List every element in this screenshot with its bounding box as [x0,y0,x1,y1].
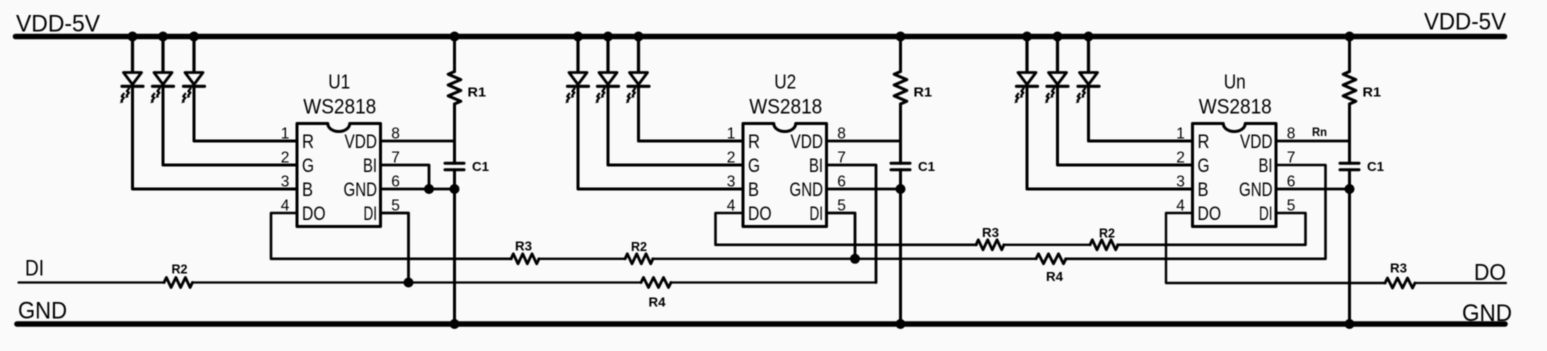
VDD power rail (+5V) [16,34,1505,40]
svg-text:DO: DO [1198,204,1222,225]
junction on GND rail at x=1349.5 [1345,319,1355,329]
capacitor C1 (stage 2) [891,162,910,165]
svg-text:B: B [748,180,759,201]
svg-text:DO: DO [302,204,326,225]
resistor R1 (stage 2) [894,72,907,105]
resistor R2 (DI series) [164,278,193,288]
junction on VDD rail at x=638.5 [634,32,644,42]
IC U1 body (WS2818) [297,124,381,227]
wire R3 to R2 (stage 1-2) [539,258,626,260]
junction BI/GND node U1 [424,184,434,194]
LED D6 (stage 2, to pin 1 R) [637,37,640,75]
svg-text:R3: R3 [515,239,532,254]
wire DI net to U2 BI pin 7 [827,165,877,283]
wire U1 pin 8 VDD to column [381,140,455,143]
svg-text:C1: C1 [472,159,489,174]
svg-text:GND: GND [1462,300,1512,327]
svg-text:2: 2 [1176,150,1185,167]
svg-text:2: 2 [727,150,736,167]
svg-text:R1: R1 [468,85,487,100]
wire R1 to C1 (stage 1) [453,104,456,163]
svg-text:R3: R3 [982,225,999,240]
svg-text:C1: C1 [918,159,935,174]
junction DO1 net / U2 pin 5 [850,254,860,264]
junction on VDD rail at x=1057.5 [1053,32,1063,42]
wire Un pin 4 DO down-left loop [1166,213,1386,283]
junction on VDD rail at x=578.0 [573,32,583,42]
resistor R3 (U1 DO series) [511,254,539,264]
svg-text:R: R [748,132,760,153]
junction on VDD rail at column x=1349.5 [1345,32,1355,42]
LED D1 (stage 1, to pin 3 B) [131,37,134,75]
resistor R4 (U2 DI to Un BI) [1036,254,1066,264]
svg-text:BI: BI [1259,156,1273,177]
wire C1 to GND rail (stage 2) [899,170,902,324]
wire R4 to U2 BI riser [671,281,877,283]
junction on VDD rail at x=194.0 [189,32,199,42]
wire Un pin 8 VDD to column [1276,140,1350,143]
svg-text:VDD-5V: VDD-5V [1424,9,1506,36]
svg-text:1: 1 [281,126,290,143]
IC U2 body (WS2818) [743,124,827,227]
capacitor C1 (stage n) [1340,162,1359,165]
junction GND pin/column Un [1345,184,1355,194]
svg-text:1: 1 [1176,126,1185,143]
svg-text:BI: BI [363,156,377,177]
svg-text:B: B [1198,180,1209,201]
wire VDD rail to R1 (stage 2) [899,37,902,72]
resistor R2 (U1 DO series) [625,254,653,264]
wire R2 to Un DI riser [1118,213,1306,245]
svg-text:GND: GND [18,298,67,325]
svg-text:G: G [302,156,314,177]
svg-text:GND: GND [790,180,824,201]
wire R2 to U2 DI node [653,258,1037,260]
wire R1 to C1 (stage 2) [899,104,902,163]
svg-text:U1: U1 [328,70,350,93]
svg-text:3: 3 [727,174,736,191]
wire U2 DI node up to pin 5 [827,213,856,259]
svg-text:R2: R2 [172,262,188,277]
wire C1 to GND rail (stage n) [1348,170,1351,324]
svg-text:1: 1 [727,126,736,143]
svg-text:R2: R2 [1099,226,1115,241]
junction on VDD rail at x=163.0 [158,32,168,42]
svg-text:3: 3 [281,174,290,191]
svg-text:3: 3 [1176,174,1185,191]
wire U1 pin 7 BI to GND net [381,165,430,189]
wire R3 to R2 (stage 2-n) [1004,244,1091,246]
junction on VDD rail at x=1027.0 [1022,32,1032,42]
wire Un pin 6 GND to column [1276,188,1350,191]
junction on VDD rail at x=132.5 [128,32,138,42]
resistor R3 (Un DO series) [1385,278,1415,288]
svg-text:WS2818: WS2818 [303,96,376,119]
svg-text:DI: DI [1259,204,1273,225]
wire C1 to GND rail (stage 1) [453,170,456,324]
junction on VDD rail at x=1088.5 [1084,32,1094,42]
junction on GND rail at x=454.5 [450,319,460,329]
svg-text:DI: DI [25,256,44,281]
wire U2 pin 6 GND to column [827,188,901,191]
svg-text:R4: R4 [1046,269,1064,284]
LED D9 (stage 3, to pin 1 R) [1087,37,1090,75]
wire DI terminal to R2 [19,281,165,283]
svg-text:2: 2 [281,150,290,167]
svg-text:Un: Un [1224,70,1246,93]
wire U2 pin 4 DO down-left loop [716,213,977,245]
LED D7 (stage 3, to pin 3 B) [1025,37,1028,75]
svg-text:VDD: VDD [1240,132,1273,153]
wire U1 pin 6 GND to column [381,188,455,191]
wire R4 to Un BI riser [1066,165,1326,259]
svg-text:G: G [748,156,760,177]
junction on VDD rail at column x=900.5 [896,32,906,42]
resistor R2 (U2 DO series) [1090,240,1118,250]
wire R3 to DO terminal [1415,282,1507,284]
svg-text:R1: R1 [914,85,933,100]
svg-text:B: B [302,180,313,201]
LED D2 (stage 1, to pin 2 G) [161,37,164,75]
wire VDD rail to R1 (stage n) [1348,37,1351,72]
svg-text:R: R [1198,132,1210,153]
svg-text:R2: R2 [631,239,647,254]
svg-text:DO: DO [748,204,772,225]
svg-text:R4: R4 [649,295,667,310]
junction on GND rail at x=900.5 [896,319,906,329]
wire VDD rail to R1 (stage 1) [453,37,456,72]
svg-text:R3: R3 [1390,261,1407,276]
svg-text:GND: GND [1239,180,1273,201]
svg-text:VDD: VDD [345,132,378,153]
wire U1 DI node up to pin 5 [381,213,409,283]
svg-text:DI: DI [810,204,824,225]
svg-text:G: G [1198,156,1210,177]
svg-text:WS2818: WS2818 [1199,96,1272,119]
GND rail [17,321,1505,327]
svg-text:VDD-5V: VDD-5V [16,11,100,38]
junction GND pin/column U2 [896,184,906,194]
svg-text:R: R [302,132,314,153]
LED D3 (stage 1, to pin 1 R) [192,37,195,75]
LED D5 (stage 2, to pin 2 G) [606,37,609,75]
junction GND pin/column U1 [450,184,460,194]
svg-text:DO: DO [1474,259,1506,285]
resistor R3 (U2 DO series) [976,240,1004,250]
capacitor C1 (stage 1) [445,162,464,165]
svg-text:DI: DI [364,204,378,225]
junction on VDD rail at column x=454.5 [450,32,460,42]
LED D8 (stage 3, to pin 2 G) [1056,37,1059,75]
svg-text:Rn: Rn [1312,127,1327,139]
svg-text:BI: BI [809,156,823,177]
svg-text:VDD: VDD [791,132,824,153]
resistor R4 (U1 DI to U2 BI) [641,278,671,288]
svg-text:WS2818: WS2818 [749,96,822,119]
junction on VDD rail at x=608.0 [603,32,613,42]
svg-text:R1: R1 [1363,85,1382,100]
svg-text:C1: C1 [1367,159,1384,174]
svg-text:U2: U2 [774,70,796,93]
junction DI net / U1 pin 5 [404,278,414,288]
wire U1 pin 4 DO down-left loop [271,213,512,259]
resistor R1 (stage 1) [448,72,461,105]
wire R1 to C1 (stage n) [1348,104,1351,163]
resistor R1 (stage n) [1343,72,1356,105]
wire R2 to R4 (U1 DI node) [192,281,642,283]
LED D4 (stage 2, to pin 3 B) [576,37,579,75]
IC Un body (WS2818) [1193,124,1277,227]
wire U2 pin 8 VDD to column [827,140,901,143]
svg-text:GND: GND [344,180,378,201]
